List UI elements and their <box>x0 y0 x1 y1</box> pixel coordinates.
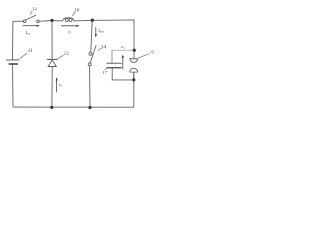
svg-text:12: 12 <box>32 7 38 12</box>
svg-text:L: L <box>69 31 72 35</box>
svg-text:c: c <box>124 45 126 49</box>
svg-text:11: 11 <box>28 48 33 54</box>
svg-text:ps: ps <box>26 32 31 36</box>
svg-text:bat: bat <box>100 29 104 33</box>
svg-text:14: 14 <box>101 44 107 51</box>
svg-text:d: d <box>60 84 62 88</box>
svg-text:17: 17 <box>102 70 107 75</box>
svg-text:13: 13 <box>64 52 69 57</box>
svg-text:15: 15 <box>150 50 155 55</box>
svg-text:16: 16 <box>74 9 80 14</box>
